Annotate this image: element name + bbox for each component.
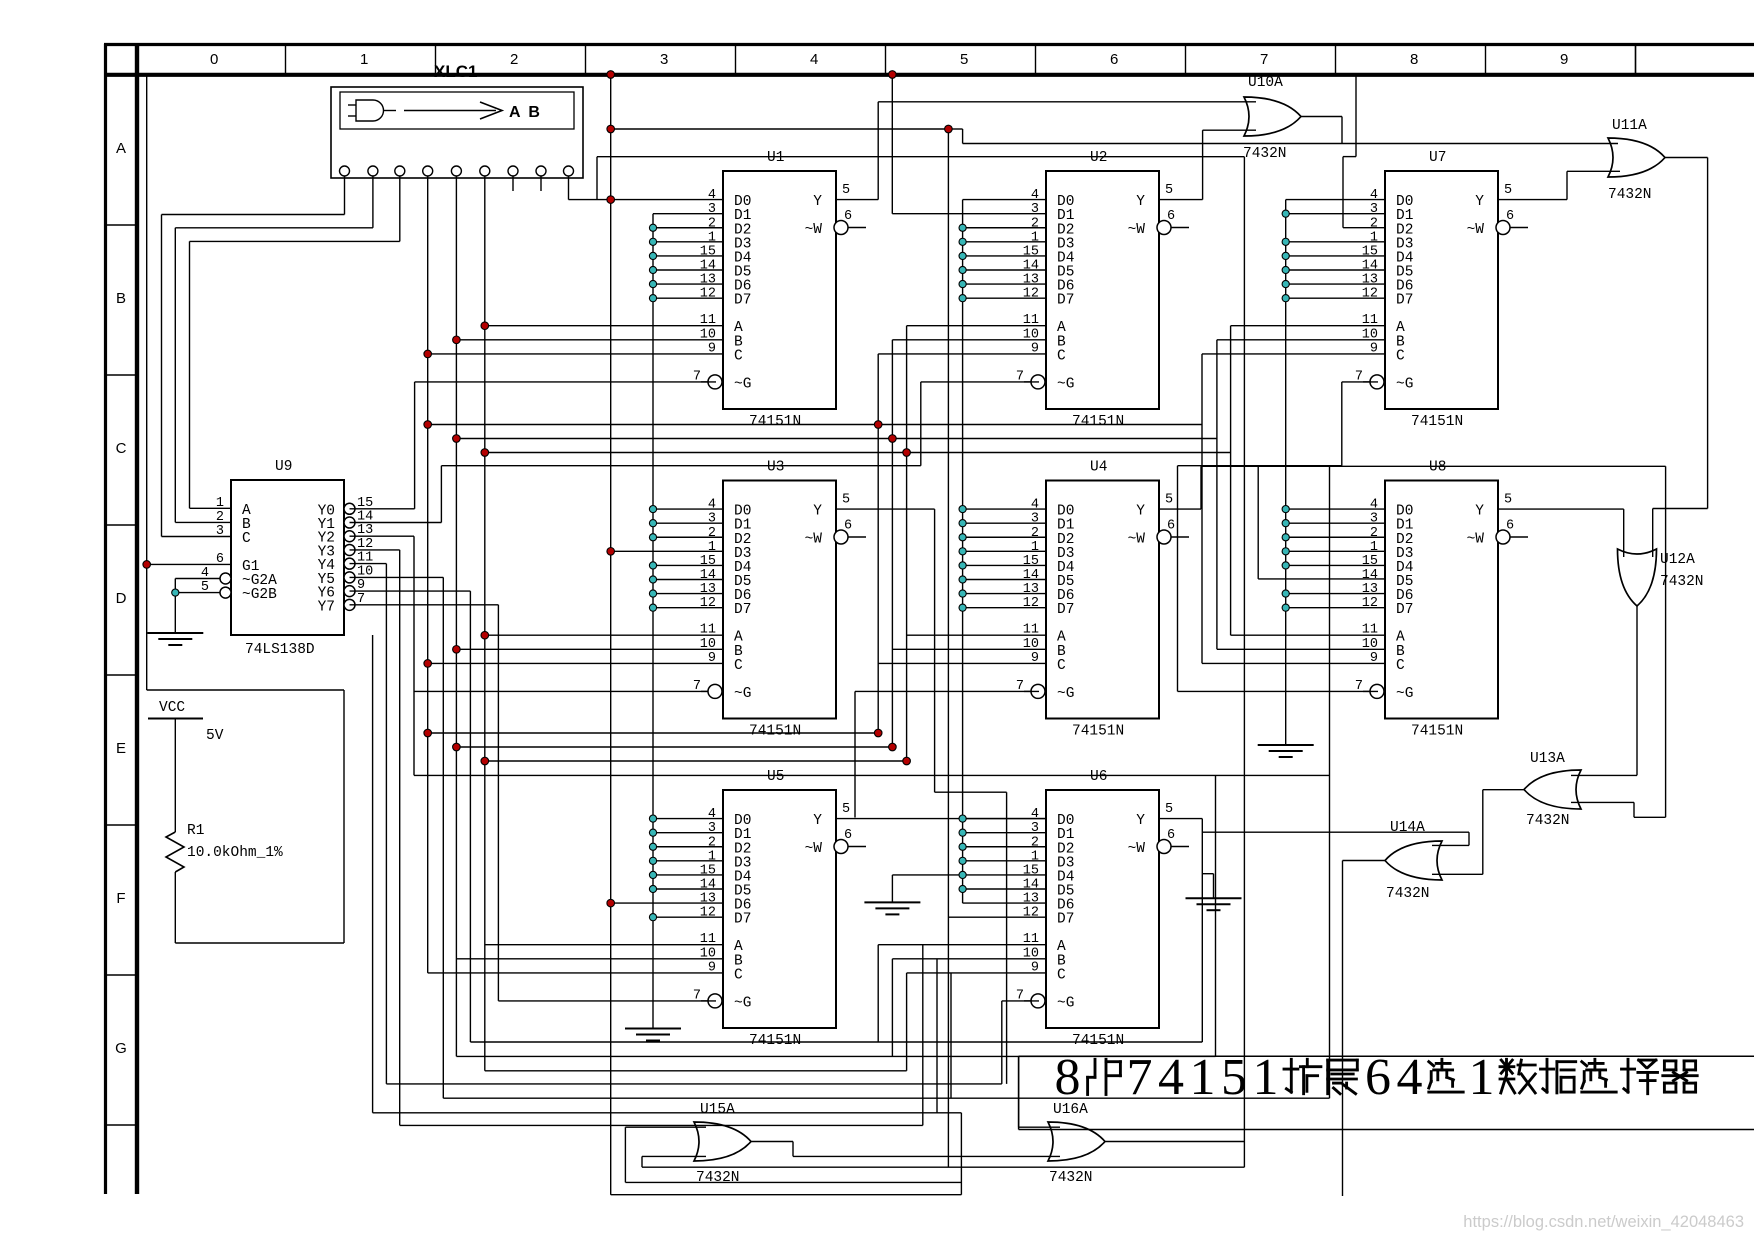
wire U16A.in1 net [1019, 1057, 1060, 1128]
svg-text:14: 14 [700, 878, 716, 893]
svg-text:D7: D7 [1057, 912, 1074, 928]
svg-text:6: 6 [844, 519, 852, 534]
svg-text:U9: U9 [275, 459, 292, 475]
junction (653,860.8) [649, 857, 656, 864]
junction (653,579.5) [649, 576, 656, 583]
svg-text:6: 6 [1167, 209, 1175, 224]
svg-text:3: 3 [1370, 512, 1378, 527]
junction (653,241.8) [649, 238, 656, 245]
svg-text:A B: A B [509, 104, 542, 121]
wire U1 data pin rows [653, 214, 723, 298]
svg-text:C: C [1057, 348, 1066, 364]
junction (427.7,353.9) [424, 350, 432, 358]
junction (175.3,592.6) [172, 589, 179, 596]
svg-text:Y: Y [1136, 194, 1145, 210]
wire U9.Y6 drop [350, 591, 471, 1042]
junction (962.6,270.0) [959, 266, 966, 273]
svg-text:U2: U2 [1090, 150, 1107, 166]
junction dots (teal) [172, 210, 1290, 921]
wire x=611 bottom hook [611, 1194, 962, 1196]
svg-text:~G: ~G [734, 686, 751, 702]
or-gate U10A 7432N [1243, 75, 1301, 162]
chip U9 74LS138D [201, 459, 373, 658]
svg-text:U13A: U13A [1530, 751, 1565, 767]
junction (892.4,438.5) [889, 435, 897, 443]
junction (962.6,565.4) [959, 562, 966, 569]
wire U1/U3/U5 data rail x=653 [652, 214, 654, 1029]
svg-text:4: 4 [1397, 1049, 1423, 1106]
wire U7.~G net [1178, 382, 1379, 692]
junction (653,565.4) [649, 562, 656, 569]
wire U12A.out to U13A.in1 [1571, 606, 1637, 775]
svg-text:2: 2 [1031, 216, 1039, 231]
junction (610.7,129) [607, 125, 615, 133]
junction (456.4,438.5) [453, 435, 461, 443]
junction (962.6,255.9) [959, 252, 966, 259]
wire riser x=1202 (U7.C/U8.C) [1202, 354, 1385, 664]
junction (484.8,761) [481, 757, 489, 765]
junction (906.6,761) [903, 757, 911, 765]
junction (962.6,860.8) [959, 857, 966, 864]
svg-text:15: 15 [1023, 554, 1039, 569]
svg-text:74LS138D: 74LS138D [245, 642, 315, 658]
svg-text:~W: ~W [805, 532, 823, 548]
junction (610.7,199.6) [607, 196, 615, 204]
svg-text:~W: ~W [1128, 222, 1146, 238]
wire bus y=1112.8 (U6.B) [373, 635, 1046, 1113]
svg-text:5: 5 [1504, 493, 1512, 508]
vcc symbol [148, 700, 224, 744]
svg-text:U7: U7 [1429, 150, 1446, 166]
svg-text:10.0kOhm_1%: 10.0kOhm_1% [187, 845, 283, 861]
junction (1285.7,241.8) [1282, 238, 1289, 245]
svg-text:1: 1 [1370, 230, 1378, 245]
ground (U1/U3/U5 data rail) [625, 1029, 681, 1041]
junction (653,874.9) [649, 871, 656, 878]
ruler column numbers [210, 51, 1568, 68]
svg-text:15: 15 [700, 863, 716, 878]
svg-text:74151N: 74151N [1072, 724, 1124, 740]
junction (962.6,241.8) [959, 238, 966, 245]
junction (948.4,129) [945, 125, 953, 133]
svg-text:~W: ~W [1467, 532, 1485, 548]
ruler row letters [104, 140, 137, 1125]
junction (962.6,298.2) [959, 295, 966, 302]
svg-text:14: 14 [1023, 568, 1039, 583]
svg-text:4: 4 [708, 498, 716, 513]
or-gate U14A 7432N (mirrored) [1385, 820, 1442, 902]
wire U1.B row [456, 339, 723, 341]
junction (610.7,903.1) [607, 899, 615, 907]
junction (146.7,564.4) [143, 561, 151, 569]
svg-text:7432N: 7432N [1049, 1170, 1093, 1186]
junction (653,227.8) [649, 224, 656, 231]
junction (653,607.7) [649, 604, 656, 611]
junction (484.8,452.5) [481, 449, 489, 457]
svg-text:6: 6 [1167, 828, 1175, 843]
svg-text:~W: ~W [1128, 532, 1146, 548]
svg-text:15: 15 [1023, 863, 1039, 878]
wire U11A.out to U12A.in2 [1653, 158, 1708, 558]
svg-text:F: F [116, 890, 125, 907]
wire U7 data pin rows [1286, 214, 1385, 298]
wire XLC1.3 to U9.A [190, 176, 400, 508]
junction (653,270.0) [649, 266, 656, 273]
chip U3 74151N [693, 460, 866, 740]
junction (653,593.6) [649, 590, 656, 597]
junction (427.7,663.4) [424, 660, 432, 668]
junction (892.3,74.5) [889, 71, 897, 79]
chip U4 74151N [1016, 460, 1189, 740]
wire U3.Y drop [836, 509, 1007, 1084]
svg-text:~G2B: ~G2B [242, 587, 277, 603]
svg-text:6: 6 [844, 828, 852, 843]
junction (1285.7,551.3) [1282, 548, 1289, 555]
junction (962.6,846.8) [959, 843, 966, 850]
svg-text:D7: D7 [1396, 293, 1413, 309]
svg-text:4: 4 [1031, 807, 1039, 822]
svg-text:15: 15 [1362, 554, 1378, 569]
svg-text:U1: U1 [767, 150, 784, 166]
junction (878.2,733) [874, 729, 882, 737]
junction (892.4,747) [889, 743, 897, 751]
wire riser x=878.2 (U2.C/U4.C) [878, 354, 1046, 1042]
junction (653,255.9) [649, 252, 656, 259]
svg-text:2: 2 [1031, 835, 1039, 850]
junction (653,889.0) [649, 885, 656, 892]
chip U8 74151N [1355, 460, 1528, 740]
junction (653,832.7) [649, 829, 656, 836]
junction (962.6,537.3) [959, 534, 966, 541]
svg-text:13: 13 [700, 273, 716, 288]
svg-text:3: 3 [1370, 202, 1378, 217]
wire XLC1.1 to U9.C [162, 176, 345, 537]
svg-text:7: 7 [1260, 51, 1268, 68]
wire U16A.out riser [1105, 157, 1244, 1167]
svg-text:D7: D7 [1396, 602, 1413, 618]
svg-text:13: 13 [1023, 582, 1039, 597]
wire U9.Y4 drop [350, 564, 387, 1084]
svg-text:1: 1 [1031, 849, 1039, 864]
resistor R1 10.0kOhm_1% [166, 719, 283, 944]
svg-text:C: C [734, 348, 743, 364]
wire U10A.out [1301, 117, 1342, 144]
chip U5 74151N [693, 769, 866, 1049]
svg-text:D7: D7 [1057, 602, 1074, 618]
wire XLC1.7 stub [512, 176, 514, 191]
svg-text:C: C [1057, 967, 1066, 983]
junction (653,284.1) [649, 280, 656, 287]
wire U1.Y to U10A.in1 [836, 102, 1256, 200]
svg-text:3: 3 [1031, 821, 1039, 836]
wire branch y=452.5 (A) [485, 452, 1231, 454]
wire U14A.out drop [1343, 861, 1386, 1197]
svg-text:12: 12 [1023, 906, 1039, 921]
wire U3.B row [456, 648, 723, 650]
svg-text:1: 1 [1370, 540, 1378, 555]
svg-text:~W: ~W [805, 841, 823, 857]
svg-text:5: 5 [842, 493, 850, 508]
wire U1.C row [428, 353, 723, 355]
svg-text:14: 14 [1362, 259, 1378, 274]
svg-text:6: 6 [1506, 519, 1514, 534]
junction (1285.7,523.2) [1282, 520, 1289, 527]
or-gate U12A 7432N (rotated down) [1618, 549, 1704, 606]
chip U1 74151N [693, 150, 866, 430]
svg-text:2: 2 [1370, 216, 1378, 231]
wire U2/U4/U6 data rail x=962.6 [963, 200, 1046, 904]
title box [1019, 1056, 1754, 1129]
svg-text:2: 2 [1370, 526, 1378, 541]
svg-text:4: 4 [1370, 498, 1378, 513]
svg-text:15: 15 [700, 244, 716, 259]
svg-text:E: E [116, 740, 126, 757]
wire XLC1.6 select-A rail [485, 176, 723, 1071]
junction (1285.7,298.2) [1282, 295, 1289, 302]
svg-text:14: 14 [1362, 568, 1378, 583]
svg-text:1: 1 [708, 540, 716, 555]
svg-text:U10A: U10A [1248, 75, 1283, 91]
wire branch y=438.5 (B) [456, 438, 1217, 440]
svg-text:U11A: U11A [1612, 118, 1647, 134]
svg-text:D7: D7 [734, 912, 751, 928]
junction (1285.7,565.4) [1282, 562, 1289, 569]
svg-text:9: 9 [1560, 51, 1568, 68]
junction (610.7,551.3) [607, 548, 615, 556]
svg-text:6: 6 [844, 209, 852, 224]
junction (962.6,832.7) [959, 829, 966, 836]
wire net y=775.4 [414, 466, 1330, 1098]
wire y=156.7 line to U1.D0 drop [597, 157, 1244, 200]
svg-text:Y: Y [813, 194, 822, 210]
svg-text:5: 5 [1165, 802, 1173, 817]
wire U9.G2 wires [175, 579, 220, 634]
junction (962.6,551.3) [959, 548, 966, 555]
svg-text:~G: ~G [734, 376, 751, 392]
svg-text:2: 2 [708, 216, 716, 231]
wire XLC1.9 to U1.D0 [569, 176, 724, 200]
svg-text:7: 7 [1127, 1049, 1153, 1106]
wire border bus y=74.5 [147, 74, 1356, 76]
svg-text:U3: U3 [767, 460, 784, 476]
svg-text:3: 3 [660, 51, 668, 68]
wire bus y=1125.4 (U6.A) [400, 945, 1046, 1126]
svg-text:Y: Y [1475, 194, 1484, 210]
wire U9.Y0 to U1.~G [350, 382, 717, 509]
svg-text:U5: U5 [767, 769, 784, 785]
svg-text:Y: Y [1475, 504, 1484, 520]
svg-text:C: C [1057, 658, 1066, 674]
svg-text:3: 3 [1031, 202, 1039, 217]
junction (962.6,818.6) [959, 815, 966, 822]
junction (962.6,593.6) [959, 590, 966, 597]
wire riser x=906.6 (U2.A/U4.A) [907, 326, 1046, 1071]
svg-text:U4: U4 [1090, 460, 1107, 476]
junction dots (red) [143, 71, 952, 907]
svg-text:~W: ~W [1128, 841, 1146, 857]
svg-text:5: 5 [1165, 493, 1173, 508]
svg-text:~G: ~G [1396, 686, 1413, 702]
wire x=146.7 rail to G1/VCC loop [147, 75, 231, 691]
svg-text:4: 4 [1370, 188, 1378, 203]
wire riser x=1215.5 [1215, 775, 1217, 1056]
svg-text:C: C [242, 531, 251, 547]
wire riser x=1230.6 (U7.A/U8.A) [1231, 326, 1385, 636]
svg-text:~G: ~G [1396, 376, 1413, 392]
svg-text:12: 12 [1023, 596, 1039, 611]
wire U9.Y1 to U2.~G [350, 382, 1040, 523]
svg-text:D7: D7 [1057, 293, 1074, 309]
wire XLC1.8 stub [540, 176, 542, 191]
svg-text:B: B [116, 290, 126, 307]
svg-text:8: 8 [1410, 51, 1418, 68]
svg-text:7432N: 7432N [1243, 146, 1287, 162]
wire branch y=424.5 (C) [428, 424, 1202, 426]
svg-text:6: 6 [1365, 1049, 1391, 1106]
chip U6 74151N [1016, 769, 1189, 1049]
title text: 8 pieces 74151 expand to 64-to-1 data selector [1055, 1049, 1698, 1106]
wire U4 data pin rows [963, 509, 1046, 608]
wire bus y=1098.2 (U6.C) [443, 973, 1329, 1098]
wire XLC1.2 to U9.B [175, 176, 373, 522]
wire bus y=1083.9 (U6.~G) [386, 1001, 1039, 1084]
wire bus y=1056.4 [456, 1055, 1215, 1057]
wire U9.Y7 to U5.~G [350, 605, 717, 1001]
svg-text:D7: D7 [734, 293, 751, 309]
junction (484.8,635.2) [481, 631, 489, 639]
svg-text:6: 6 [1506, 209, 1514, 224]
svg-text:15: 15 [1023, 244, 1039, 259]
svg-text:5: 5 [842, 802, 850, 817]
svg-text:C: C [116, 440, 127, 457]
junction (456.4,747) [453, 743, 461, 751]
junction (653,846.8) [649, 843, 656, 850]
svg-text:2: 2 [510, 51, 518, 68]
svg-text:5: 5 [960, 51, 968, 68]
svg-text:R1: R1 [187, 823, 204, 839]
junction (484.8,325.7) [481, 322, 489, 330]
or-gate U15A 7432N [694, 1102, 751, 1186]
XLC1 terminals [340, 166, 574, 176]
svg-text:1: 1 [708, 230, 716, 245]
junction (962.6,284.1) [959, 280, 966, 287]
svg-text:13: 13 [1362, 273, 1378, 288]
junction (653,509.1) [649, 506, 656, 513]
junction (610.7,74.5) [607, 71, 615, 79]
svg-text:7432N: 7432N [696, 1170, 740, 1186]
wire x=892.3 drop to U2.D1 [892, 75, 1046, 214]
junction (456.4,339.8) [453, 336, 461, 344]
wire net y=143.5 to U11A.in1 [948, 129, 1618, 144]
wire XLC1.5 select-B rail [456, 176, 723, 1056]
wire U5.Y to U6.D0 [836, 818, 1046, 820]
svg-text:VCC: VCC [159, 700, 185, 716]
wire U15A.out to U16A.in2 [751, 1142, 1060, 1157]
svg-text:7432N: 7432N [1608, 187, 1652, 203]
svg-text:A: A [116, 140, 126, 157]
wire U15A.in2 loop [642, 1156, 1244, 1167]
chip U2 74151N [1016, 150, 1189, 430]
wire U4.~G feed [855, 691, 1039, 817]
ground (mid, below U5-U6 gap) [864, 875, 962, 915]
wire branch y=761 (A) [485, 760, 907, 762]
svg-text:2: 2 [708, 835, 716, 850]
wire x=1356 drop to U7.D2 [1343, 75, 1385, 228]
svg-text:G: G [115, 1040, 127, 1057]
junction (653,917.2) [649, 914, 656, 921]
chip U7 74151N [1355, 150, 1528, 430]
svg-text:12: 12 [1362, 287, 1378, 302]
svg-text:74151N: 74151N [749, 724, 801, 740]
ground (U7/U8 data rail) [1258, 745, 1314, 757]
svg-text:~G: ~G [1057, 376, 1074, 392]
wire branch y=747 (B) [456, 746, 892, 748]
wire U8 data pin rows [1286, 509, 1385, 608]
wire U2 data pin rows [963, 200, 1046, 299]
instrument XLC1 body [331, 87, 583, 178]
or-gate U16A 7432N [1048, 1102, 1105, 1186]
svg-text:~G: ~G [734, 995, 751, 1011]
svg-text:1: 1 [1031, 540, 1039, 555]
junction (962.6,874.9) [959, 871, 966, 878]
svg-text:3: 3 [708, 512, 716, 527]
wire bus y=1042 [470, 1041, 1202, 1043]
junction (1285.7,509.1) [1282, 506, 1289, 513]
svg-text:3: 3 [708, 202, 716, 217]
svg-text:Y7: Y7 [318, 599, 335, 615]
svg-text:12: 12 [700, 596, 716, 611]
junction (653,818.6) [649, 815, 656, 822]
svg-text:~G: ~G [1057, 686, 1074, 702]
wire branch y=733 (C) [428, 732, 879, 734]
svg-text:7432N: 7432N [1386, 886, 1430, 902]
wire riser x=1216.9 (U7.B/U8.B) [1217, 340, 1385, 650]
wire x=948.4 long drop [947, 129, 949, 1167]
junction (878.2,424.5) [874, 421, 882, 429]
svg-text:2: 2 [1031, 526, 1039, 541]
wire U7/U8 data rail x=1285.7 [1286, 200, 1385, 745]
svg-text:~W: ~W [1467, 222, 1485, 238]
svg-text:12: 12 [1362, 596, 1378, 611]
or-gate U13A 7432N (mirrored) [1524, 751, 1581, 829]
svg-text:~G: ~G [1057, 995, 1074, 1011]
wire riser x=892.4 (U2.B/U4.B) [892, 340, 1046, 1057]
junction (653,298.2) [649, 295, 656, 302]
svg-text:12: 12 [700, 906, 716, 921]
junction (962.6,607.7) [959, 604, 966, 611]
wire bus y=1070.8 [485, 1070, 907, 1072]
junction (906.6,452.5) [903, 449, 911, 457]
svg-text:12: 12 [1023, 287, 1039, 302]
wire U9.Y2 to U3.~G [350, 536, 709, 775]
wire U2.Y to U10A.in2 [1159, 130, 1256, 199]
svg-text:1: 1 [1031, 230, 1039, 245]
svg-text:XLC1: XLC1 [434, 62, 477, 81]
svg-text:3: 3 [708, 821, 716, 836]
svg-text:1: 1 [1253, 1049, 1279, 1106]
svg-text:4: 4 [1031, 498, 1039, 513]
svg-text:12: 12 [700, 287, 716, 302]
svg-text:C: C [1396, 348, 1405, 364]
svg-text:5: 5 [1221, 1049, 1247, 1106]
wire U3.C row [428, 662, 723, 664]
svg-text:5: 5 [1165, 183, 1173, 198]
wire U6.Y / U14A.in1 net [1159, 819, 1469, 1042]
svg-text:~W: ~W [805, 222, 823, 238]
svg-text:13: 13 [700, 892, 716, 907]
junction (427.7,733) [424, 729, 432, 737]
svg-text:74151N: 74151N [749, 1033, 801, 1049]
